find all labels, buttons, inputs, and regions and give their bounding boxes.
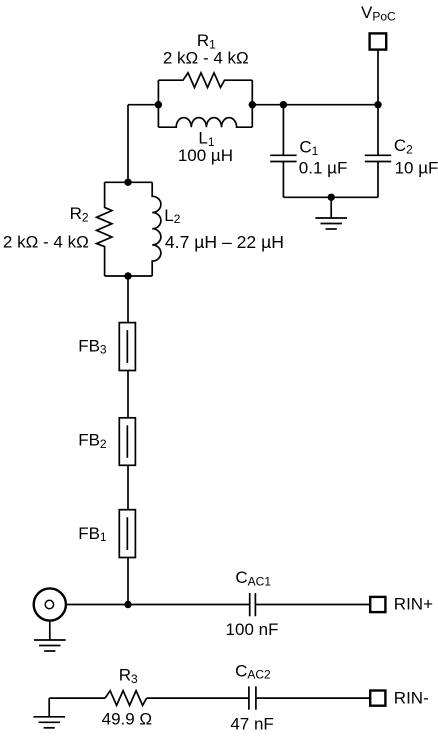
wire R2L2 to FB3 [127,276,129,323]
wire FB2 to FB1 [127,465,129,509]
svg-text:4.7 µH – 22 µH: 4.7 µH – 22 µH [165,232,284,252]
wire top horizontal R1L1 right to C2 [252,104,378,106]
wire CAC2 to RIN- [256,697,370,699]
wire connector to CAC1 [65,604,249,606]
ground under C1 C2 [315,197,347,229]
wire bottom of C1 C2 [283,196,378,198]
wire FB3 to FB2 [127,371,129,418]
svg-text:100 nF: 100 nF [226,620,279,639]
resistor R1 [158,73,252,127]
ground under connector [34,621,66,651]
svg-text:RIN-: RIN- [394,688,429,707]
junction node R2L2 top [124,179,131,186]
junction node C1 top [280,101,287,108]
junction node top left of R1 [155,101,162,108]
capacitor C2 [365,105,391,198]
terminal RIN- square [370,691,385,706]
terminal VPoC square [370,33,387,49]
junction node top right of R1 [249,101,256,108]
wire CAC1 to RIN+ [255,604,370,606]
resistor R2 [97,182,153,276]
junction node C2 top [374,101,381,108]
connector J1 coax [34,588,66,620]
svg-text:RIN+: RIN+ [394,595,433,614]
wire ground to R3 [49,697,105,699]
junction node ground C1C2 [328,194,335,201]
svg-text:49.9 Ω: 49.9 Ω [102,710,153,729]
svg-text:0.1 µF: 0.1 µF [299,159,348,178]
terminal RIN+ square [370,597,385,612]
svg-text:100 µH: 100 µH [178,146,233,165]
wire bottom of R2L2 [105,275,153,277]
ferrite bead FB1 [119,510,135,558]
capacitor CAC2 [249,686,256,709]
resistor R3 [105,691,147,706]
junction node R2L2 bottom [124,272,131,279]
wire top left to R1L1 left [128,104,158,106]
inductor L2 [152,182,161,276]
wire VPoC to top node [377,50,379,105]
capacitor CAC1 [250,593,256,616]
inductor L1 [158,118,252,128]
capacitor C1 [270,105,296,198]
wire R3 to CAC2 [147,697,249,699]
junction node bottom [124,601,131,608]
svg-text:2 kΩ - 4 kΩ: 2 kΩ - 4 kΩ [163,48,249,67]
ground at R3 input [33,698,65,728]
svg-text:10 µF: 10 µF [395,159,438,178]
ferrite bead FB2 [119,418,135,466]
svg-text:47 nF: 47 nF [230,715,273,734]
wire FB1 to bottom node [127,558,129,605]
wire left vertical down to R2L2 [127,105,129,183]
ferrite bead FB3 [119,323,135,371]
svg-text:2 kΩ - 4 kΩ: 2 kΩ - 4 kΩ [3,232,89,251]
